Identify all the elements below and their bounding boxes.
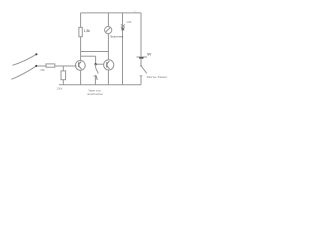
switch S0 upper lever bbox=[12, 54, 37, 65]
wire battery to switch bbox=[140, 59, 142, 66]
wire bottom ground rail bbox=[59, 84, 141, 86]
wire Q1 emitter bbox=[80, 70, 82, 85]
node S0 lower contact bbox=[35, 65, 37, 67]
wire Q2 emitter bbox=[107, 70, 109, 85]
switch S2 bottom contact bbox=[140, 75, 143, 77]
lamp L01 cross bbox=[121, 25, 125, 28]
svg-text:Summer: Summer bbox=[110, 34, 123, 38]
svg-text:L01: L01 bbox=[127, 20, 132, 24]
switch S1 bottom contact bbox=[94, 75, 97, 77]
battery B1 short plate bbox=[139, 57, 143, 59]
svg-text:unterbrechen: unterbrechen bbox=[87, 92, 104, 96]
switch S1 lever bbox=[96, 68, 99, 74]
wire S1 to bottom rail bbox=[94, 76, 96, 85]
battery B1 long plate bbox=[137, 56, 148, 58]
wire buzzer branch top bbox=[107, 13, 109, 26]
switch S1 actuator arrow bbox=[96, 76, 97, 80]
svg-text:100k: 100k bbox=[56, 86, 62, 90]
wire R1 branch vertical bbox=[80, 13, 82, 28]
wire lamp branch bbox=[122, 13, 124, 85]
wire switch to bottom rail bbox=[140, 76, 142, 85]
switch S2 top contact bbox=[140, 65, 142, 67]
node base junction bbox=[94, 63, 96, 65]
wire buzzer to collector node bbox=[107, 34, 109, 60]
resistor R1 body bbox=[79, 27, 82, 36]
switch S0 lower lever bbox=[11, 66, 36, 79]
wire R3 stub bottom bbox=[62, 80, 64, 85]
wire switch to R2 bbox=[37, 65, 46, 67]
svg-text:68k: 68k bbox=[40, 68, 45, 72]
resistor R2 body bbox=[46, 64, 55, 67]
node S0 upper contact bbox=[35, 53, 37, 55]
wire Q1 base bbox=[55, 65, 77, 67]
transistor Q1 bbox=[75, 61, 85, 71]
wire link Q1 collector to base node bbox=[81, 55, 96, 57]
svg-text:U1: U1 bbox=[133, 9, 137, 13]
svg-text:9V: 9V bbox=[147, 52, 152, 56]
buzzer BZ1 circle bbox=[105, 27, 112, 34]
switch S1 stub bbox=[95, 64, 97, 68]
resistor R3 body bbox=[61, 71, 66, 80]
wire top supply rail bbox=[81, 12, 141, 14]
wire collector rail bbox=[81, 51, 109, 53]
svg-text:Morse-Taster: Morse-Taster bbox=[147, 75, 168, 79]
wire R3 stub top bbox=[62, 66, 64, 71]
wire Q2 base bbox=[96, 63, 104, 65]
wire R1 to Q1 collector bbox=[80, 37, 82, 61]
svg-text:1,8k: 1,8k bbox=[84, 29, 91, 33]
switch S2 lever bbox=[141, 66, 147, 73]
transistor Q2 bbox=[104, 60, 114, 70]
wire right branch upper bbox=[140, 13, 142, 57]
